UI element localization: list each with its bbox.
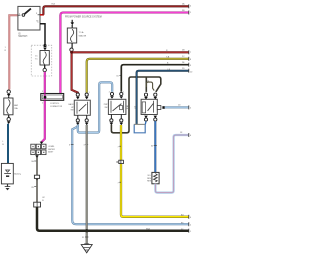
connector C1 [34,175,39,178]
arrow into meter block [40,142,44,145]
junction connector JC1 horizontal [41,94,64,101]
ground symbol [84,243,89,245]
connector circle above fuse F3 [7,90,10,93]
B3 box [141,99,157,114]
junction dot [43,44,46,47]
wire L royal blue: B3 to resistor [154,121,156,172]
wire R-Y right run to edge [72,51,189,53]
svg-text:CONNECTOR: CONNECTOR [50,106,63,108]
svg-text:1: 1 [123,92,124,94]
svg-text:5: 5 [42,103,43,105]
ignition switch lever [22,9,31,17]
wire R light red: left edge run down to fuse AM2 [9,15,18,89]
wire L sky: B3 to right edge [165,106,189,108]
svg-text:1: 1 [89,92,90,94]
svg-text:5: 5 [42,91,43,93]
B3 right terminal connector [157,106,161,110]
svg-text:FROM POWER SOURCE SYSTEM: FROM POWER SOURCE SYSTEM [65,17,102,19]
wire P pink: fuse F1 down through junction connector to meter [42,72,45,142]
svg-text:SW: SW [105,107,108,109]
relay B3 top connectors [144,93,147,96]
connector circle below fuse F2 [71,43,73,48]
back-up light switch B1 box [74,100,90,115]
connector circle below fuse F1 [44,65,46,68]
svg-text:7.5 A: 7.5 A [79,31,84,34]
fuse F2 GAUGE box [67,28,76,43]
wire L sky blue: B1 stub over to B2 top-left [78,82,112,132]
ignition switch SW1 box [18,6,40,30]
resistor R1 box [152,172,159,183]
svg-text:15: 15 [35,56,37,58]
terminal tick right upper [38,14,40,16]
svg-text:1: 1 [5,47,6,49]
svg-text:GAUGE: GAUGE [79,34,87,37]
fuse F1 S-curve [43,52,46,65]
stub into gauge fuse [71,20,73,23]
small junction connector box below B3 [134,123,146,125]
wire gray meter down through connectors [36,155,38,175]
B3 bottom connectors [144,118,147,121]
svg-text:2: 2 [109,92,110,94]
end tick top right [188,4,190,8]
svg-text:14: 14 [147,81,149,83]
wire R-B maroon top run to right edge [43,6,188,15]
terminal tick left [18,14,21,16]
wire B stub into B3 top-left [145,77,147,92]
svg-text:BACK: BACK [68,103,74,106]
B2 box [108,99,126,114]
wire red stub at switch output [40,14,44,16]
fuse F3 box [4,98,13,115]
wire navy battery feed [7,124,9,164]
battery BAT box [1,163,13,184]
svg-text:B-W: B-W [127,105,129,109]
back-up light switch B1 top connectors [76,93,79,96]
wire B black: B2 top-right up and right to edge [121,65,188,92]
wire Y yellow: B2 to bottom right edge [121,125,189,217]
wire R-Y mid red: gauge fuse down to T then to B1 [72,52,78,94]
wire Y-B yellow-black: B1 up and right to edge [87,59,189,93]
wire B black: B2 bottom-left loop up over to B3 [111,77,160,133]
connector C2 [34,202,41,207]
wire W-B gray: B1 to ground [86,125,88,244]
svg-text:L: L [2,141,3,143]
power source box pink outline with top run to right edge [60,13,188,94]
splice tag on yellow [117,161,119,163]
svg-text:ASSY: ASSY [48,150,54,153]
wire L sky blue: B1 stub to long bottom run to right edge [72,125,189,224]
svg-text:SW: SW [71,109,74,111]
wire black ignition to fuse F1 [40,24,45,46]
fuse F2 S-curve [71,29,74,42]
svg-text:AM2: AM2 [14,104,18,107]
park/neutral position switch B2 top connectors [110,92,113,95]
B1 bottom connectors [77,115,79,119]
connector bracket over B3 terminals [146,82,154,91]
connector arrow [43,48,47,51]
dashed boundary junction block [31,45,52,76]
wire W-B black bus bottom [37,207,189,231]
wire L-B navy: right edge to small connector box [137,71,189,125]
svg-text:Battery: Battery [14,173,22,176]
svg-text:7.5: 7.5 [35,58,38,60]
B2 bottom connectors [110,115,112,119]
wire L-R lt blue with red core: resistor to right edge [155,135,188,193]
svg-text:SWITCH: SWITCH [18,36,27,38]
connector circle below fuse F3 [8,115,10,118]
battery ground [7,184,9,187]
svg-text:W-B: W-B [146,229,151,231]
svg-text:2: 2 [74,92,75,94]
combination meter block M1 cells [31,144,46,154]
fuse F1 box [40,51,49,66]
